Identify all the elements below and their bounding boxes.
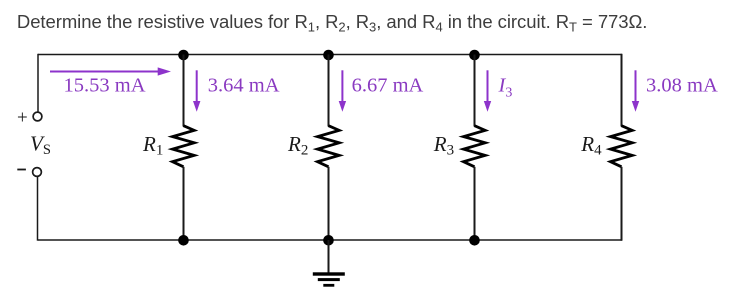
resistor R4: [611, 126, 633, 167]
svg-text:Determine the resistive values: Determine the resistive values for R1, R…: [17, 11, 647, 35]
node (bottom of R3): [469, 235, 480, 246]
svg-text:I3: I3: [498, 74, 513, 100]
wire: R1 top lead: [183, 55, 185, 127]
wire: R1 bottom lead: [183, 167, 185, 240]
resistor R3: [464, 126, 486, 167]
wire: R4 top lead: [621, 54, 623, 127]
node A (top of R1): [178, 50, 189, 61]
svg-text:R1: R1: [142, 132, 163, 159]
svg-text:R4: R4: [580, 132, 602, 159]
current arrow 3.08 mA: [632, 70, 639, 111]
current arrow 6.67 mA: [339, 70, 346, 111]
node (bottom of R2, ground junction): [323, 235, 334, 246]
svg-text:15.53 mA: 15.53 mA: [64, 75, 146, 97]
source VS minus terminal: [33, 168, 42, 177]
svg-text:VS: VS: [30, 132, 51, 159]
wire: R2 bottom lead: [328, 167, 330, 240]
current arrow 3.64 mA: [193, 70, 200, 111]
current arrow 15.53 mA: [50, 67, 171, 75]
wire: ground stub: [328, 240, 330, 273]
node C (top of R3): [469, 50, 480, 61]
wire: R3 bottom lead: [474, 167, 476, 240]
svg-text:3.08 mA: 3.08 mA: [646, 74, 718, 96]
node (bottom of R1): [178, 235, 189, 246]
svg-text:3.64 mA: 3.64 mA: [208, 74, 280, 96]
wire: left branch lower (source bottom lead): [37, 177, 39, 241]
svg-text:6.67 mA: 6.67 mA: [352, 74, 424, 96]
ground: [313, 272, 345, 286]
resistor R1: [173, 126, 195, 167]
wire: top rail: [38, 54, 622, 56]
resistor R2: [318, 126, 340, 167]
wire: R3 top lead: [474, 55, 476, 127]
wire: left branch upper (source top lead): [37, 54, 39, 112]
svg-text:R3: R3: [433, 132, 454, 159]
wire: R4 bottom lead: [621, 167, 623, 241]
wire: bottom rail: [38, 239, 622, 241]
current arrow I3: [484, 70, 491, 111]
svg-text:R2: R2: [287, 132, 308, 159]
minus sign: [17, 169, 26, 171]
svg-text:+: +: [17, 108, 28, 129]
wire: R2 top lead: [328, 55, 330, 127]
node B (top of R2): [323, 50, 334, 61]
source VS plus terminal: [33, 112, 42, 121]
